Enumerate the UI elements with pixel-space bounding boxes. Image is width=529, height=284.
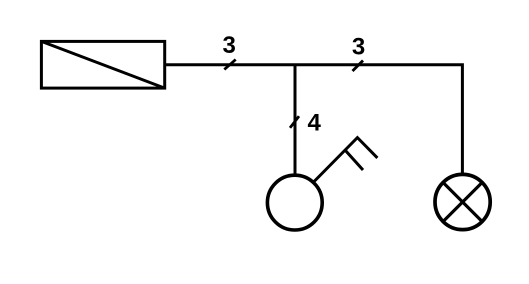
svg-text:4: 4 (308, 109, 322, 136)
svg-text:3: 3 (223, 32, 236, 59)
svg-text:3: 3 (352, 34, 365, 61)
